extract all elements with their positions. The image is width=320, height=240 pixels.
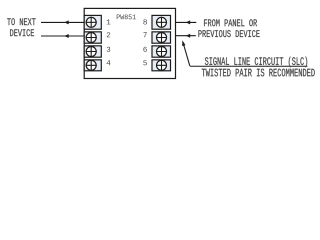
arrowhead on pin-2 wire (points left): [64, 34, 69, 38]
label PW851: [117, 14, 136, 19]
pin number 6: [143, 47, 147, 52]
label TO NEXT DEVICE: [7, 18, 35, 36]
wire from pin 7: [176, 35, 196, 37]
terminal 2: [84, 32, 101, 43]
terminal block outer body PW851: [84, 8, 175, 78]
pin number 1: [107, 19, 111, 24]
arrowhead on pin-1 wire (points left): [64, 20, 69, 24]
terminal 5: [152, 60, 171, 71]
label FROM PANEL OR PREVIOUS DEVICE: [198, 19, 259, 37]
wire to pin 1: [41, 21, 84, 23]
terminal 3: [84, 46, 101, 57]
label SIGNAL LINE CIRCUIT (SLC) / TWISTED PAIR IS RECOMMENDED: [202, 57, 315, 77]
wire to pin 2: [41, 35, 84, 37]
pin number 4: [107, 60, 111, 65]
terminal 1: [84, 15, 101, 29]
pin number 5: [143, 60, 147, 65]
pin number 8: [143, 19, 147, 24]
wire from pin 8: [176, 21, 197, 23]
terminal 7: [152, 32, 171, 43]
terminal 8: [152, 15, 171, 29]
pin number 7: [143, 32, 146, 37]
arrowhead on pin-8 wire (points left): [186, 20, 191, 24]
pin number 3: [107, 47, 111, 52]
pin number 2: [107, 32, 110, 37]
terminal 4: [84, 60, 101, 71]
arrowhead on pin-7 wire (points left): [186, 34, 191, 38]
terminal 6: [152, 46, 171, 57]
SLC leader line with arrowhead: [182, 40, 307, 66]
